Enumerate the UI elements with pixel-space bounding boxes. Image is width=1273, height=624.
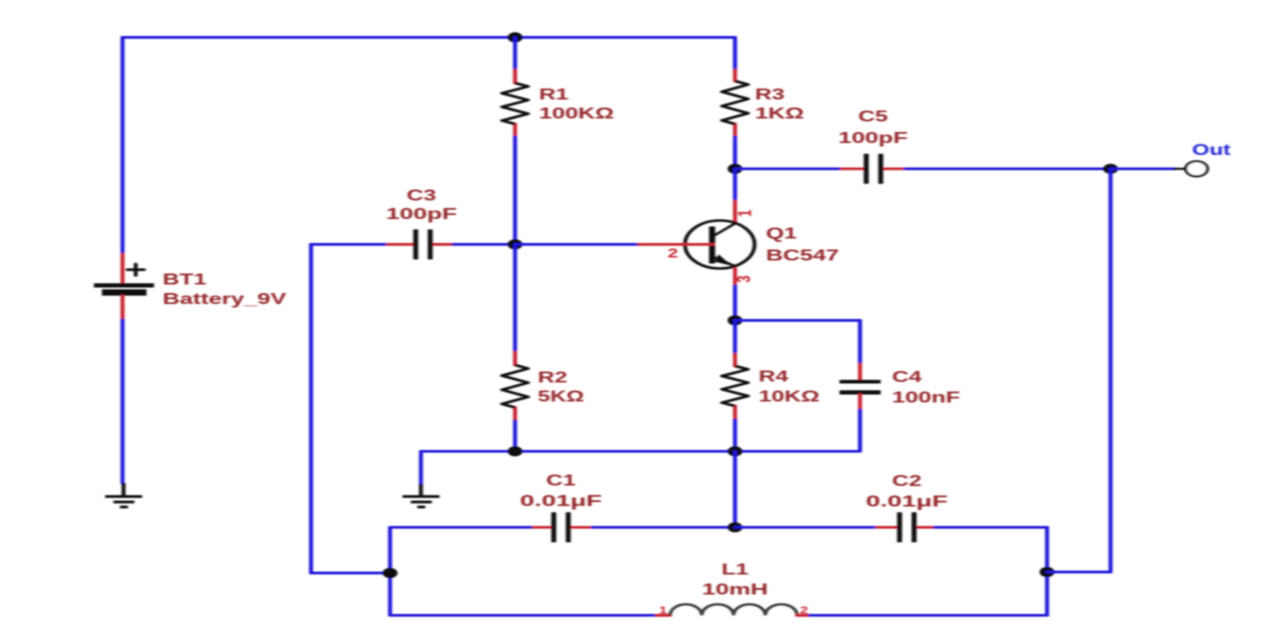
capacitor C4 plates — [840, 382, 881, 393]
battery BT1 short plate — [102, 289, 147, 295]
capacitor C1 — [534, 512, 593, 542]
svg-text:Battery_9V: Battery_9V — [163, 290, 287, 308]
label C4 value 100nF — [892, 389, 960, 407]
wire: top rail corner to R3 — [734, 37, 737, 70]
svg-text:100KΩ: 100KΩ — [539, 105, 614, 123]
transistor Q1 body — [685, 221, 755, 269]
ground GND1 under battery — [105, 483, 142, 507]
label R2 reference — [538, 369, 568, 387]
battery BT1 top pin (red) — [121, 254, 124, 283]
svg-text:C2: C2 — [892, 472, 922, 490]
svg-text:L1: L1 — [721, 561, 748, 579]
wire: feedback to bottom-left junction — [311, 572, 390, 575]
label L1 reference — [721, 561, 748, 579]
svg-text:C3: C3 — [407, 187, 437, 205]
capacitor C5 — [842, 154, 906, 184]
label C1 value 0.01uF — [520, 492, 602, 510]
capacitor C2 — [877, 512, 935, 542]
wire: base node to R2 top — [514, 244, 517, 352]
svg-text:BT1: BT1 — [163, 271, 207, 289]
svg-text:10mH: 10mH — [702, 581, 768, 599]
label C3 value 100pF — [386, 205, 457, 223]
node: +9V junction at R1 top — [508, 32, 523, 42]
label R4 value 10K&#937; — [759, 388, 820, 406]
svg-text:0.01μF: 0.01μF — [520, 492, 602, 510]
svg-text:Q1: Q1 — [766, 225, 797, 243]
label R4 reference — [759, 368, 789, 386]
svg-text:BC547: BC547 — [766, 247, 839, 265]
svg-text:100nF: 100nF — [892, 389, 960, 407]
label Q1 reference — [766, 225, 797, 243]
label BT1 value Battery_9V — [163, 290, 287, 308]
wire: ground rail (R2/R4/C4 bottoms) — [421, 450, 860, 453]
svg-text:R1: R1 — [539, 86, 569, 104]
label C2 value 0.01uF — [866, 493, 948, 511]
node: collector node junction — [728, 164, 743, 174]
label C1 reference — [546, 472, 576, 490]
wire: emitter node to C4 top — [735, 319, 860, 322]
wire: R2 bottom to ground rail — [514, 421, 517, 451]
wire: collector node to Q1 collector pin — [734, 169, 737, 201]
wire: bottom rail right of L1 — [810, 614, 1047, 617]
label R3 reference — [755, 86, 785, 104]
svg-text:1: 1 — [659, 605, 667, 616]
wire: C3 to base node — [454, 243, 515, 246]
node: junction R4 bottom — [728, 446, 743, 456]
node: bottom-left junction — [383, 568, 398, 578]
wire: bottom-right junction to output riser — [1047, 571, 1111, 574]
inductor L1 — [670, 604, 797, 615]
node: output junction — [1103, 164, 1118, 174]
resistor R4 — [722, 354, 748, 420]
wire: bottom rail left of L1 — [390, 614, 657, 617]
svg-text:R2: R2 — [538, 369, 568, 387]
label C2 reference — [892, 472, 922, 490]
svg-text:2: 2 — [800, 605, 808, 616]
label BT1 reference — [163, 271, 207, 289]
wire: C4 bottom to ground rail — [859, 410, 862, 451]
node: emitter junction — [728, 315, 743, 325]
wire: center junction to C2 — [735, 526, 877, 529]
svg-text:1: 1 — [735, 210, 756, 217]
svg-text:2: 2 — [668, 246, 678, 260]
label R2 value 5K&#937; — [538, 388, 584, 406]
resistor R2 — [502, 352, 528, 421]
node: junction R2 bottom — [508, 446, 523, 456]
wire: emitter pin to emitter node — [734, 286, 737, 320]
wire: R1 bottom to base node — [514, 137, 517, 244]
wire: ground rail drop to GND2 — [420, 451, 423, 484]
svg-text:3: 3 — [734, 275, 755, 282]
label C4 reference — [892, 368, 922, 386]
node: base node junction (R1/R2/C3/Q1) — [508, 239, 523, 249]
wire: top +9V rail — [123, 36, 735, 39]
svg-text:R3: R3 — [755, 86, 785, 104]
wire: C5 to out junction — [905, 167, 1110, 170]
wire: R4 bottom to ground rail — [734, 420, 737, 451]
wire: right corner drop — [1046, 527, 1049, 572]
svg-text:10KΩ: 10KΩ — [759, 388, 820, 406]
wire: collector node to C5 — [735, 167, 842, 170]
wire: base node to Q1 base pin — [515, 243, 639, 246]
terminal: Out open circle — [1186, 161, 1208, 176]
svg-text:C1: C1 — [546, 472, 576, 490]
svg-text:R4: R4 — [759, 368, 789, 386]
label R3 value 1K&#937; — [755, 105, 804, 123]
wire: output riser — [1109, 169, 1112, 572]
wire: feedback left riser — [310, 244, 313, 573]
wire: emitter node to R4 top — [734, 320, 737, 354]
transistor Q1 emitter pin (red) — [734, 269, 737, 287]
label R1 reference — [539, 86, 569, 104]
capacitor C4 bottom pin (red) — [859, 395, 862, 411]
pin number 2 (L1) — [800, 605, 808, 616]
pin number 1 (collector) — [735, 210, 756, 217]
wire: feedback left riser top corner — [311, 243, 388, 246]
node: bottom-right junction — [1040, 567, 1055, 577]
svg-text:C5: C5 — [858, 108, 888, 126]
wire: bottom-right riser — [1046, 572, 1049, 615]
battery BT1 long plate — [94, 283, 154, 287]
wire: tank row left segment — [390, 526, 534, 529]
label C3 reference — [407, 187, 437, 205]
svg-text:100pF: 100pF — [386, 205, 457, 223]
wire: battery negative to ground — [121, 320, 124, 483]
resistor R3 — [722, 70, 748, 137]
inductor L1 pin 1 (red) — [657, 614, 670, 617]
wire: R3 bottom to collector node — [734, 137, 737, 169]
ground GND2 — [403, 484, 440, 507]
label C5 value 100pF — [838, 129, 908, 147]
pin number 3 (emitter) — [734, 275, 755, 282]
wire: R4 bottom junction to tank row — [734, 451, 737, 527]
wire: terminal stub (black) — [1175, 168, 1186, 170]
svg-text:1KΩ: 1KΩ — [755, 105, 804, 123]
label L1 value 10mH — [702, 581, 768, 599]
label R1 value 100K&#937; — [539, 105, 614, 123]
wire: battery positive riser — [121, 37, 124, 254]
svg-text:Out: Out — [1192, 141, 1231, 159]
transistor Q1 collector pin (red) — [734, 201, 737, 223]
battery BT1 plus sign — [127, 264, 144, 275]
inductor L1 pin 2 (red) — [797, 614, 810, 617]
node: tank row center junction — [728, 522, 743, 532]
svg-text:100pF: 100pF — [838, 129, 908, 147]
label Q1 value BC547 — [766, 247, 839, 265]
wire: tank row left drop — [389, 527, 392, 615]
battery BT1 bottom pin (red) — [121, 296, 124, 320]
svg-text:5KΩ: 5KΩ — [538, 388, 584, 406]
label Out net name — [1192, 141, 1231, 159]
capacitor C3 — [388, 229, 454, 259]
svg-text:0.01μF: 0.01μF — [866, 493, 948, 511]
pin number 1 (L1) — [659, 605, 667, 616]
resistor R1 — [502, 70, 528, 137]
wire: C2 to right corner — [935, 526, 1047, 529]
wire: C1 to center junction — [593, 526, 735, 529]
svg-text:C4: C4 — [892, 368, 922, 386]
wire: C4 top riser — [859, 320, 862, 364]
label C5 reference — [858, 108, 888, 126]
wire: out junction to terminal — [1111, 167, 1175, 170]
wire: rail to R1 top — [514, 37, 517, 70]
transistor Q1 base pin (red) — [639, 243, 713, 246]
capacitor C4 top pin (red) — [859, 364, 862, 380]
pin number 2 (base) — [668, 246, 678, 260]
